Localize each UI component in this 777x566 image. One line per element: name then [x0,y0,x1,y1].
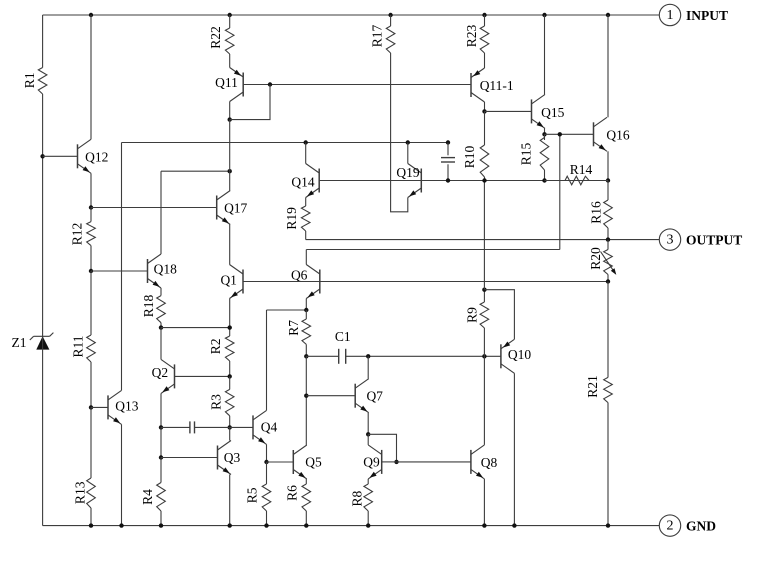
wire left rail upper [42,15,44,68]
wire left rail lower [42,350,44,526]
wire Q13 collector column [121,143,123,391]
capacitor Q19-R10 [441,158,455,162]
svg-text:3: 3 [667,233,674,248]
wire Q8 emitter [483,479,485,526]
wire Q3 collector [229,427,231,440]
transistor Q4 [253,410,277,444]
wire Q12 emitter to node [90,173,92,207]
node y142 rail / Q14 collector [304,140,308,144]
wire R11 top [90,271,92,335]
node left rail / Q12 base [40,154,44,158]
node OUTPUT rail / R16 / R20 [606,237,610,241]
wire R19 bottom [305,231,307,240]
svg-text:R22: R22 [208,26,223,49]
transistor Q18 [148,254,178,288]
wire R12 top [90,208,92,222]
node top rail / R22 [228,13,232,17]
resistor R23 [464,25,489,53]
node GND rail / R4 [159,523,163,527]
wire Q16 base [545,133,594,135]
svg-text:R13: R13 [73,481,88,504]
node R9 bottom / Q10 base [482,354,486,358]
wire Q2 base [175,375,230,377]
svg-text:Q13: Q13 [115,398,138,413]
capacitor Q2-Q4 [190,421,195,433]
wire R11 bottom [90,362,92,407]
wire R10 top [484,111,486,145]
resistor R4 [140,483,165,512]
svg-text:R9: R9 [464,307,479,323]
wire Q12 base [43,155,78,157]
wire R5 bottom [266,511,268,526]
transistor Q5 [293,445,322,479]
transistor Q17 [217,191,248,225]
wire Q9 emitter [367,479,369,484]
node Q4 emitter / R5 / Q5 base [264,460,268,464]
resistor R20 [588,247,612,274]
svg-text:Q8: Q8 [481,455,498,470]
wire R6 bottom [305,511,307,526]
node Q6 emitter / Q4 collector / R7 [304,308,308,312]
transistor Q6 [291,265,320,299]
pin 1 INPUT [659,4,728,25]
resistor R10 [462,145,489,177]
wire Q15 emitter [544,128,546,134]
wire Q17 emitter / Q1 collector [229,225,231,265]
node GND rail / Q13 emitter [119,523,123,527]
node R2 / R3 / Q2 base [228,374,232,378]
node Q16 emitter / R14 / R16 [606,178,610,182]
svg-text:R11: R11 [71,335,86,357]
node GND rail / R21 [606,523,610,527]
wire R9 bottom [483,328,485,356]
wire x559 column [559,134,561,249]
resistor R5 [244,484,270,511]
svg-text:2: 2 [667,519,674,534]
wire Q6 collector rail [306,249,560,251]
wire Q14 emitter [305,198,307,207]
svg-text:Q5: Q5 [305,454,322,469]
wire Q7 collector [367,356,369,378]
wire cap left [161,426,190,428]
svg-text:R21: R21 [585,375,600,398]
wire Q5 base [267,461,294,463]
wire Q11 tie [230,85,270,120]
wire R20 top [607,240,609,250]
wire Q17 base [91,207,217,209]
wire Q18 base [91,270,148,272]
wire Q11 collector [229,102,231,120]
wire Q7 base [306,395,355,397]
pin 2 GND [659,515,716,536]
node Q2 emitter / cap / R4 [159,425,163,429]
wire R2 top [229,328,231,336]
wire top INPUT rail [43,14,660,16]
transistor Q13 [108,390,139,424]
wire Q16 emitter [607,151,609,180]
wire R4 top [160,458,162,483]
node top rail / Q15 collector [542,13,546,17]
svg-text:C1: C1 [335,329,351,344]
svg-text:Q1: Q1 [220,272,237,287]
transistor Q12 [78,139,109,173]
node Q9 base / Q8 base [394,460,398,464]
wire base rail Q1-Q6-R20 [243,281,608,283]
svg-text:Q16: Q16 [606,128,629,143]
wire Q9 collector [367,434,369,445]
wire R22 top [229,15,231,28]
transistor Q11 [215,68,243,102]
wire R16 bottom [607,228,609,240]
svg-text:Q11: Q11 [215,75,238,90]
node Q7 base tap [304,394,308,398]
svg-text:Q6: Q6 [291,267,308,282]
node GND rail / Q10 collector [512,523,516,527]
node GND rail / Q3 emitter [228,523,232,527]
svg-text:Q17: Q17 [224,201,247,216]
wire Q1 emitter [229,299,231,328]
svg-text:Q10: Q10 [508,347,531,362]
wire R18 node to R2 [161,327,230,329]
wire R21 bottom [607,403,609,526]
svg-text:R20: R20 [588,247,603,270]
wire Q13 emitter [121,424,123,525]
wire R12 bottom [90,246,92,271]
node Q1 emitter / R2 / R18 wire [228,325,232,329]
wire Q9 base [382,461,397,463]
wire Q5 emitter [305,479,307,484]
svg-text:R8: R8 [350,490,365,506]
resistor R19 [284,206,310,231]
svg-text:Q19: Q19 [396,165,419,180]
wire Q19 emitter [391,53,408,212]
resistor R16 [589,200,613,228]
resistor R12 [69,222,95,246]
resistor R14 [565,162,592,185]
transistor Q16 [594,117,630,151]
svg-text:R15: R15 [519,143,534,166]
wire R23 top [484,15,486,26]
wire R22 bottom [229,54,231,68]
wire Q18 emitter [160,288,162,296]
transistor Q7 [355,379,383,413]
wire R13 top [90,407,92,478]
svg-text:Q2: Q2 [152,365,169,380]
transistor Q1 [220,265,243,299]
node Q11 base tie tap [268,82,272,86]
resistor R2 [208,336,234,361]
wire C1 right [346,355,501,357]
svg-text:Q7: Q7 [366,389,383,404]
node GND rail / R5 [264,523,268,527]
wire R7 to Q7 base node [305,356,307,395]
wire Q10 collector [513,373,515,525]
node base rail / R15 / R14 [542,178,546,182]
wire R20 bottom [607,275,609,282]
svg-text:R5: R5 [244,487,259,503]
wire Q16 collector [607,15,609,117]
wire Q12 collector [90,15,92,139]
resistor R6 [285,484,311,511]
svg-text:R12: R12 [69,223,84,246]
node R11 / R13 / Q13 base [89,405,93,409]
svg-text:R1: R1 [22,72,37,88]
transistor Q9 [363,445,381,479]
wire Q9 base tie [368,434,396,462]
node R3 / Q3 collector / Q4 base / cap [228,425,232,429]
wire Q2 collector [160,328,162,360]
resistor R8 [350,484,373,511]
svg-text:R6: R6 [285,485,300,501]
wire R7 bottom [305,344,307,356]
transistor Q15 [532,94,565,128]
wire Q2 emitter to Q3 node [160,427,162,457]
wire R23 bottom [484,53,486,68]
wire Q6 emitter [305,299,307,311]
wire left rail middle [42,94,44,336]
resistor R9 [464,302,488,328]
node Q11-1 collector / R10 / Q15 base [482,109,486,113]
svg-text:R4: R4 [140,489,155,505]
zener Z1 [12,333,54,350]
svg-text:Z1: Z1 [12,335,27,350]
wire Q19 collector [407,143,409,164]
resistor R11 [71,335,96,362]
wire Q4 collector top [267,309,307,311]
wire Q15 base [485,110,532,112]
node Q11 collector / Q17 collector / Q18 collector [228,169,232,173]
wire R3 bottom [229,416,231,428]
resistor R17 [370,25,395,53]
svg-text:Q4: Q4 [261,419,278,434]
wire Q18 collector column [160,171,162,254]
node top rail / R17 [388,13,392,17]
node base rail / cap bottom [446,178,450,182]
svg-text:R18: R18 [141,295,156,318]
svg-text:R3: R3 [209,394,224,410]
wire R10 bottom [484,177,486,181]
wire R9 top [483,290,485,302]
wire cap right [195,426,230,428]
wire cap top [447,143,449,156]
svg-text:R14: R14 [570,162,593,177]
svg-text:R19: R19 [284,207,299,230]
node R12 / R11 / Q18 base [89,269,93,273]
transistor Q14 [291,164,319,198]
node y142 rail / cap top [446,140,450,144]
node Q12 emitter / R12 / Q17 base [89,205,93,209]
wire R4 bottom [160,511,162,526]
wire Q6 collector [305,250,307,265]
wire Q3 emitter [229,475,231,526]
node GND rail / Q8 emitter [482,523,486,527]
wire Q4 collector column [266,310,268,410]
node base rail / R10 [482,178,486,182]
wire OUTPUT rail [306,239,660,241]
node top rail / Q12 collector [89,13,93,17]
wire cap bottom [447,164,449,180]
svg-text:Q18: Q18 [154,262,177,277]
wire R10-R9 column [483,181,485,290]
resistor R7 [286,319,310,344]
wire R15 bottom [544,170,546,181]
wire Q17 collector [229,171,231,190]
svg-text:1: 1 [667,8,674,23]
wire bottom GND rail [43,525,660,527]
transistor Q3 [218,441,241,475]
resistor R22 [208,26,234,54]
svg-text:Q9: Q9 [363,455,380,470]
node GND rail / R13 [89,523,93,527]
wire R13 bottom [90,508,92,526]
svg-text:R10: R10 [462,146,477,169]
wire Q13 base [91,406,108,408]
svg-text:Q11-1: Q11-1 [480,78,514,93]
svg-text:OUTPUT: OUTPUT [686,233,742,248]
node GND rail / R8 [366,523,370,527]
wire Q15 collector [544,15,546,94]
resistor R15 [519,138,549,171]
svg-text:Q15: Q15 [541,105,564,120]
wire Q4 emitter [266,444,268,462]
wire C1 left [306,355,338,357]
svg-text:INPUT: INPUT [686,8,728,23]
node GND rail / R6 [304,523,308,527]
transistor Q11-1 [471,68,514,102]
pin 3 OUTPUT [659,229,742,250]
transistor Q10 [501,339,531,373]
wire R3 top [229,376,231,389]
svg-text:R7: R7 [286,320,301,336]
wire Q11-1 collector [484,102,486,111]
wire Q8 base [397,461,471,463]
wire Q2 emitter [160,393,162,427]
wire Q7 emitter [367,413,369,435]
wire R2 bottom [229,361,231,376]
wire Q18 collector top [161,170,230,172]
wire R7 top [305,310,307,319]
R20 adjust arrow [601,252,617,275]
wire Q11-Q17 column [229,120,231,172]
resistor R13 [73,478,96,508]
wire R21 top [607,282,609,378]
svg-text:R17: R17 [370,25,385,48]
transistor Q2 [152,359,175,393]
node Q11 collector-base tie [228,117,232,121]
svg-text:GND: GND [686,519,716,534]
svg-text:Q3: Q3 [224,450,241,465]
transistor Q8 [471,445,498,479]
node R20 / R21 / base rail [606,279,610,283]
wire Q4 base [230,426,253,428]
transistor Q19 [396,164,421,198]
node top rail / Q16 collector [606,13,610,17]
wire R16 top [607,181,609,201]
svg-text:R23: R23 [464,25,479,48]
resistor R1 [22,68,47,95]
wire Q14 base rail [319,180,608,182]
node Q15 emitter / R15 / Q16 base [542,132,546,136]
wire R8 bottom [367,511,369,526]
wire Q3 base [161,457,218,459]
node R9 top / Q10 emitter [482,288,486,292]
wire R5 top [266,462,268,484]
resistor R3 [209,389,235,415]
resistor R21 [585,375,612,402]
wire y142 rail [122,142,449,144]
node Q3 base tap [159,455,163,459]
node Q7 emitter / Q9 collector [366,432,370,436]
node top rail / R23 [482,13,486,17]
wire R17 top [390,15,392,26]
wire R18 bottom [160,323,162,328]
wire Q10 emitter hook [484,290,514,340]
wire Q11 base rail [243,84,471,86]
resistor R18 [141,295,166,323]
wire R14 left [545,180,566,182]
wire Q5 collector [305,396,307,445]
wire Q14 collector [305,143,307,164]
wire Q8 collector [483,356,485,445]
wire R14 right [589,180,608,182]
wire R15 top [544,134,546,140]
node R7 / C1 left [304,354,308,358]
node y142 rail / Q19 collector [406,140,410,144]
node Q16 base / Q6 collector column [558,132,562,136]
svg-text:R2: R2 [208,338,223,354]
svg-text:R16: R16 [589,201,604,224]
svg-text:Q12: Q12 [85,150,108,165]
node C1 / Q7 collector [366,354,370,358]
node R18 / Q2 collector / R2 top [159,325,163,329]
svg-text:Q14: Q14 [291,175,314,190]
capacitor C1 [335,329,351,364]
